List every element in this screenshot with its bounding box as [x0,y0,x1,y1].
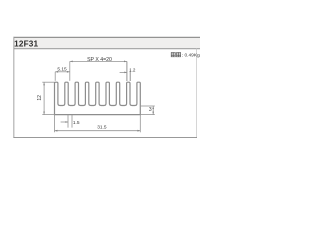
svg-text:12F31: 12F31 [14,40,38,49]
dim 3 bottom arrowhead [152,112,154,115]
dim 1.2 left arrow line [120,71,127,73]
frame left border [12,37,15,138]
dim 12 bottom arrowhead [43,112,45,115]
title bar [14,37,201,49]
dim 12 vertical dimension line [43,82,45,114]
heatsink profile outline [55,82,141,114]
dim 5.15 left arrowhead [56,71,59,73]
dim 31.5 dimension line [55,130,141,132]
dim 3 top extension line [140,105,155,107]
svg-text:1.5: 1.5 [73,120,80,126]
frame bottom border [13,136,197,139]
dim 1.2 right extension line [129,71,131,81]
frame right border [195,49,198,138]
svg-text:1.2: 1.2 [129,68,136,73]
dim 3 vertical dimension line [152,106,154,115]
dim 12 top extension line [42,81,54,83]
dim 31.5 right extension line [139,115,141,133]
dim SP X 4=20 dimension line [70,60,127,62]
dim 3 top arrowhead [152,106,154,109]
dim 12 bottom extension line [42,114,54,116]
dim 31.5 left arrowhead [55,130,58,132]
weight note CJK glyph 1 (重) [171,53,175,57]
title bar top border [14,37,201,38]
weight note CJK glyph 2 (量) [177,53,181,57]
dim 1.5 left arrow line [61,121,68,123]
dim 5.15 left extension line [54,72,56,81]
dim SP left extension line [69,61,71,80]
dim 1.5 arrowhead [65,121,68,123]
page background [0,0,200,200]
dim 12 top arrowhead [43,83,45,86]
dim 31.5 right arrowhead [137,130,140,132]
svg-text:SP X 4=20: SP X 4=20 [87,57,112,63]
dim 1.2 arrowhead [124,72,127,74]
svg-text:5.15: 5.15 [57,66,67,72]
dim SP right extension line [126,61,128,81]
dim 5.15 right arrowhead [67,71,70,73]
svg-text:31.5: 31.5 [97,125,107,131]
dim 1.5 left extension line [67,115,69,128]
svg-text:: 0.49Kg/m: : 0.49Kg/m [182,53,200,59]
dim 1.5 right extension line [71,115,73,128]
dim 3 bottom extension line [140,114,155,116]
dim SP right arrowhead [124,61,127,63]
dim SP left arrowhead [70,61,73,63]
dim 31.5 left extension line [54,115,56,133]
svg-text:3: 3 [149,107,152,113]
svg-text:12: 12 [37,95,43,101]
title bar bottom border [14,47,201,50]
dim 5.15 dimension line [55,71,70,73]
